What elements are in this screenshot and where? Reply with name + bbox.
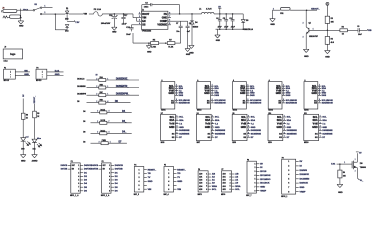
- sensor module U2 row A: [161, 79, 190, 111]
- connector P6: [198, 169, 218, 196]
- svg-text:GND: GND: [338, 192, 343, 194]
- svg-text:D13: D13: [65, 18, 68, 20]
- ground: [215, 29, 221, 42]
- svg-text:5: 5: [139, 185, 140, 187]
- svg-text:SCL1/MOSI: SCL1/MOSI: [179, 100, 190, 102]
- svg-text:I2C1S: I2C1S: [260, 171, 267, 173]
- svg-text:D6/SENSE: D6/SENSE: [322, 130, 333, 132]
- svg-text:GND: GND: [287, 127, 292, 129]
- svg-text:TN0606: TN0606: [360, 167, 366, 169]
- connector P7: [221, 169, 241, 196]
- svg-text:100uF16V: 100uF16V: [101, 23, 111, 25]
- svg-text:RESET_: RESET_: [177, 169, 186, 171]
- svg-text:SDA: SDA: [241, 119, 246, 122]
- zener diode D5: [241, 14, 253, 31]
- svg-text:C7: C7: [176, 23, 178, 25]
- svg-text:GND: GND: [241, 126, 247, 129]
- resistor R5: [151, 40, 159, 49]
- svg-text:5: 5: [168, 185, 169, 187]
- sensor module U9 row B: [232, 113, 261, 144]
- svg-text:D6/S: D6/S: [286, 95, 291, 97]
- svg-text:GND: GND: [19, 26, 24, 28]
- ground: [325, 51, 331, 59]
- svg-text:C17: C17: [124, 15, 127, 17]
- fuse F1: [94, 8, 103, 16]
- connector J6 barrel jack: [2, 7, 21, 12]
- svg-text:MX05: MX05: [304, 110, 308, 112]
- svg-text:GND: GND: [322, 93, 327, 95]
- svg-text:D6/S: D6/S: [214, 95, 219, 97]
- capacitor C7: [176, 23, 183, 33]
- svg-text:KEOUT_: KEOUT_: [34, 95, 36, 103]
- svg-text:S1/SENSE: S1/SENSE: [215, 133, 226, 135]
- svg-text:I2S/SCK: I2S/SCK: [300, 183, 309, 185]
- svg-text:6: 6: [168, 189, 169, 191]
- svg-text:D6/TXB: D6/TXB: [61, 169, 68, 171]
- svg-text:D1/SCLS: D1/SCLS: [77, 78, 85, 80]
- svg-text:GND: GND: [24, 74, 29, 76]
- svg-text:D6/SCB: D6/SCB: [61, 165, 68, 167]
- svg-text:GND: GND: [205, 126, 211, 129]
- ground: [189, 45, 195, 54]
- resistor R7 LED: [21, 99, 28, 138]
- svg-text:GND: GND: [189, 52, 194, 54]
- svg-text:S1/SENSE: S1/SENSE: [322, 133, 333, 135]
- ferrite bead FB1: [273, 8, 307, 16]
- wire comp to network: [171, 21, 181, 43]
- svg-text:value: value: [3, 60, 7, 62]
- svg-text:SCL: SCL: [277, 116, 282, 119]
- svg-text:MX01: MX01: [161, 110, 165, 112]
- svg-text:GND: GND: [177, 181, 182, 183]
- svg-text:I2S/WS: I2S/WS: [300, 170, 308, 172]
- svg-text:D6/SCB: D6/SCB: [91, 165, 98, 167]
- transistor Q2 MOSFET: [352, 153, 366, 178]
- svg-text:GND: GND: [300, 187, 305, 189]
- svg-text:R2: R2: [342, 27, 344, 29]
- svg-text:GND: GND: [311, 92, 317, 95]
- svg-text:VIN: VIN: [177, 189, 181, 191]
- svg-text:VIN: VIN: [142, 17, 146, 20]
- svg-text:R3: R3: [331, 18, 333, 20]
- wire 5V output rail: [214, 13, 243, 15]
- net flag 7.5V: [67, 20, 80, 24]
- svg-text:VIN: VIN: [84, 14, 88, 16]
- net label KEOUT_: [306, 9, 321, 11]
- sensor module U7 row B: [161, 113, 190, 144]
- svg-text:MX10: MX10: [304, 142, 308, 144]
- svg-text:GND: GND: [312, 126, 318, 129]
- resistor R6B row: [77, 85, 139, 90]
- svg-text:5: 5: [288, 178, 289, 180]
- svg-text:D1/SENPW: D1/SENPW: [77, 94, 86, 96]
- wire fuse to regulator input: [102, 13, 138, 17]
- svg-text:3: 3: [288, 170, 289, 172]
- svg-text:GND: GND: [147, 51, 152, 53]
- svg-text:D6/TXB: D6/TXB: [84, 169, 92, 171]
- resistor DOCC row: [83, 130, 132, 135]
- svg-text:S1/SENSE: S1/SENSE: [287, 133, 298, 135]
- svg-text:I2C1MOSI: I2C1MOSI: [260, 175, 271, 177]
- svg-text:D6/SENSE: D6/SENSE: [287, 130, 298, 132]
- LED D11 blue: [32, 138, 42, 155]
- svg-text:1: 1: [288, 161, 289, 163]
- svg-text:MIC6: MIC6: [221, 194, 225, 196]
- wire switch to TVS rail: [42, 13, 66, 15]
- svg-text:I2S1MCK: I2S1MCK: [300, 174, 310, 176]
- svg-text:GND: GND: [169, 126, 175, 129]
- svg-text:D10: D10: [21, 148, 24, 150]
- capacitor C5: [223, 14, 228, 29]
- svg-text:5/B: 5/B: [368, 30, 372, 32]
- svg-text:D6/SENSE: D6/SENSE: [215, 130, 226, 132]
- svg-text:8: 8: [288, 191, 289, 193]
- svg-text:MX02: MX02: [197, 110, 201, 112]
- svg-text:10n: 10n: [176, 31, 179, 33]
- svg-text:MIC8_1: MIC8_1: [281, 196, 287, 198]
- svg-text:GND: GND: [240, 92, 246, 95]
- svg-text:SS: SS: [142, 24, 146, 27]
- svg-text:MIC5: MIC5: [198, 194, 202, 196]
- wire: [159, 42, 168, 44]
- svg-text:71.5K: 71.5K: [168, 46, 174, 48]
- svg-text:1: 1: [139, 169, 140, 171]
- svg-text:MX8: MX8: [232, 142, 236, 144]
- sensor module U6 row A: [304, 79, 333, 111]
- connector P2: [91, 161, 123, 197]
- svg-text:D8: D8: [77, 101, 79, 103]
- svg-text:blue: blue: [37, 138, 41, 140]
- resistor R4: [325, 30, 334, 50]
- svg-text:S1/SENSE: S1/SENSE: [179, 133, 190, 135]
- svg-text:D8: D8: [83, 132, 85, 134]
- resistor PWM row: [83, 140, 127, 145]
- switch S1: [33, 4, 52, 15]
- svg-text:logo: logo: [10, 53, 16, 56]
- svg-text:D6/TXB: D6/TXB: [92, 169, 99, 171]
- ground: [185, 49, 191, 56]
- wire jack to ground: [20, 13, 22, 21]
- svg-text:SD1/SMOSI: SD1/SMOSI: [214, 103, 226, 105]
- svg-text:SCL: SCL: [313, 116, 318, 119]
- svg-text:GND: GND: [21, 161, 26, 163]
- capacitor C16: [101, 14, 119, 27]
- svg-text:SD1/SMOSI: SD1/SMOSI: [179, 103, 191, 105]
- svg-text:MX9: MX9: [268, 142, 272, 144]
- svg-text:VIN: VIN: [148, 189, 152, 191]
- resistor R6A row: [77, 75, 139, 82]
- svg-text:PH: PH: [164, 13, 168, 16]
- EN tie to VIN: [137, 18, 139, 22]
- capacitor C17: [121, 14, 127, 26]
- wire PH switch node: [171, 13, 202, 15]
- svg-text:V+M: V+M: [205, 122, 210, 125]
- ground: [32, 155, 38, 163]
- connector P8: [246, 159, 271, 197]
- connector P9: [281, 157, 309, 198]
- svg-text:3: 3: [168, 177, 169, 179]
- jack sleeve pin + strain relief: [3, 15, 21, 18]
- svg-text:SCL1/MOSI: SCL1/MOSI: [286, 100, 297, 102]
- svg-text:D6/SENPW_: D6/SENPW_: [116, 94, 130, 96]
- svg-text:GND: GND: [270, 24, 275, 26]
- ground: [112, 27, 117, 33]
- svg-text:SCL: SCL: [205, 116, 210, 119]
- svg-text:1: 1: [168, 169, 169, 171]
- svg-text:GND: GND: [215, 127, 220, 129]
- capacitor C3 bootstrap: [142, 2, 180, 14]
- connector MJ1 audio jack: [4, 68, 30, 83]
- svg-text:Q1: Q1: [309, 23, 311, 25]
- svg-text:D6/SCB: D6/SCB: [115, 165, 123, 167]
- svg-text:KEOUT_: KEOUT_: [311, 9, 320, 11]
- sensor module U4 row A: [233, 79, 262, 111]
- svg-text:GND: GND: [286, 93, 291, 95]
- wire branch to lower TVS: [55, 14, 67, 30]
- net label KEOUT LED column: [34, 95, 36, 103]
- svg-text:SCL1/MOSI: SCL1/MOSI: [214, 100, 225, 102]
- svg-text:C16: C16: [109, 15, 112, 17]
- svg-text:D6: D6: [83, 121, 85, 123]
- ground: [18, 21, 24, 28]
- resistor R3: [325, 16, 334, 30]
- net flag 5V: [218, 6, 221, 13]
- LED D10 red: [21, 136, 31, 154]
- svg-text:D5: D5: [246, 20, 248, 22]
- test point ground: [270, 8, 276, 26]
- diode D4 catch: [190, 14, 198, 46]
- TVS diode D14: [65, 25, 69, 33]
- logo box: [3, 46, 22, 62]
- svg-text:MX03: MX03: [233, 110, 237, 112]
- svg-text:SD1/SMOSI: SD1/SMOSI: [250, 103, 262, 105]
- svg-text:BOOT: BOOT: [142, 13, 149, 16]
- svg-text:VSENSE: VSENSE: [157, 24, 167, 27]
- svg-text:SCL: SCL: [170, 116, 175, 119]
- sensor module U8 row B: [196, 113, 225, 144]
- svg-text:GND: GND: [168, 92, 174, 95]
- svg-text:V+M: V+M: [313, 122, 318, 125]
- svg-text:C3: C3: [145, 2, 147, 4]
- svg-text:6: 6: [139, 189, 140, 191]
- net flag output: [368, 29, 372, 32]
- svg-text:C8: C8: [189, 23, 191, 25]
- svg-text:GND: GND: [216, 40, 221, 42]
- svg-text:MIC_3: MIC_3: [134, 194, 139, 196]
- resistor R10 gate pulldown: [338, 164, 347, 184]
- wire ground return rail: [216, 28, 244, 30]
- ground: [303, 49, 309, 58]
- svg-text:GND: GND: [112, 32, 117, 34]
- sensor module U11 row B: [304, 113, 333, 144]
- transistor Q1 PNP: [303, 10, 319, 49]
- inductor L1: [199, 8, 214, 14]
- svg-text:SCL1/MOSI: SCL1/MOSI: [250, 100, 261, 102]
- svg-text:D6/SENSE: D6/SENSE: [179, 130, 190, 132]
- svg-text:SD1/SMOSI: SD1/SMOSI: [322, 103, 334, 105]
- svg-text:D6/SCB: D6/SCB: [84, 165, 92, 167]
- svg-text:GND: GND: [276, 126, 282, 129]
- capacitor C9: [357, 26, 367, 36]
- svg-text:MB18-PNP: MB18-PNP: [309, 36, 318, 38]
- ground: [337, 184, 343, 194]
- svg-text:EN: EN: [142, 20, 146, 23]
- svg-text:FB1: FB1: [280, 13, 283, 15]
- svg-text:VREF: VREF: [260, 190, 266, 192]
- svg-text:GND: GND: [260, 186, 265, 188]
- svg-text:GND: GND: [251, 127, 256, 129]
- svg-text:SCL1/MOSI: SCL1/MOSI: [322, 100, 333, 102]
- svg-text:GND: GND: [322, 127, 327, 129]
- svg-text:COMP: COMP: [160, 20, 168, 23]
- resistor DOCA row: [83, 108, 132, 114]
- resistor R8 LED: [33, 104, 40, 139]
- svg-text:D6/TXB: D6/TXB: [115, 169, 123, 171]
- feedback node wire: [133, 33, 151, 44]
- svg-text:GND: GND: [325, 56, 330, 58]
- sensor module U10 row B: [268, 113, 297, 144]
- svg-text:7: 7: [288, 187, 289, 189]
- net flag source: [357, 178, 364, 182]
- svg-text:D1/SENSE: D1/SENSE: [77, 86, 86, 88]
- resistor R6C row: [77, 92, 139, 97]
- svg-text:GND: GND: [179, 93, 184, 95]
- svg-text:GND: GND: [304, 56, 309, 58]
- svg-text:7.5V: 7.5V: [75, 22, 80, 24]
- resistor R2: [327, 27, 358, 36]
- svg-text:GND: GND: [55, 74, 60, 76]
- TVS diode D13: [65, 8, 69, 21]
- svg-text:SDA: SDA: [169, 119, 174, 122]
- svg-text:S1/SENSE: S1/SENSE: [251, 133, 262, 135]
- svg-text:B5819: B5819: [193, 27, 198, 29]
- wire VIN rail: [69, 14, 94, 16]
- svg-text:GND: GND: [276, 92, 282, 95]
- svg-text:3: 3: [139, 177, 140, 179]
- wire jack to switch: [21, 9, 33, 11]
- svg-text:D6/SENSE_: D6/SENSE_: [116, 78, 129, 80]
- svg-text:SDA: SDA: [277, 119, 282, 122]
- svg-text:I2C1MISO: I2C1MISO: [260, 179, 271, 181]
- svg-text:I2C1SCK: I2C1SCK: [260, 183, 270, 185]
- svg-text:VREF: VREF: [300, 191, 306, 193]
- power flag 5V drain: [356, 152, 362, 155]
- svg-text:D6/SENTR_: D6/SENTR_: [116, 86, 129, 88]
- wire Q1 base node: [309, 28, 328, 31]
- svg-text:MJ-3.5: MJ-3.5: [4, 80, 9, 82]
- svg-text:2: 2: [168, 173, 169, 175]
- svg-text:V+M: V+M: [241, 122, 246, 125]
- net label gate: [331, 162, 352, 166]
- svg-text:GND: GND: [162, 17, 168, 20]
- capacitor C6: [229, 14, 234, 29]
- svg-text:2: 2: [288, 166, 289, 168]
- sensor module U5 row A: [268, 79, 297, 111]
- svg-text:6: 6: [288, 183, 289, 185]
- ground: [20, 155, 26, 163]
- svg-text:SDA: SDA: [313, 119, 318, 122]
- svg-text:SDA: SDA: [205, 119, 210, 122]
- svg-text:2: 2: [139, 173, 140, 175]
- svg-text:SD1/SMOSI: SD1/SMOSI: [286, 103, 298, 105]
- svg-text:D2: D2: [83, 142, 85, 144]
- power flag 5V: [326, 2, 329, 16]
- connector P5: [164, 165, 187, 196]
- svg-text:I2C1MEM: I2C1MEM: [300, 178, 310, 180]
- svg-text:MJ-3.5: MJ-3.5: [36, 80, 41, 82]
- svg-text:SCL: SCL: [212, 189, 217, 191]
- svg-text:MX7: MX7: [197, 142, 201, 144]
- svg-text:D6/S: D6/S: [322, 95, 327, 97]
- connector P4: [134, 164, 157, 196]
- svg-text:GND: GND: [179, 127, 184, 129]
- sensor module U3 row A: [197, 79, 226, 111]
- svg-text:D11: D11: [33, 148, 36, 150]
- regulator U1 TPS54233: [138, 10, 171, 33]
- resistor R7: [167, 40, 175, 49]
- resistor DOCB row: [83, 120, 132, 125]
- svg-text:GND: GND: [148, 181, 153, 183]
- svg-text:MX6: MX6: [161, 142, 165, 144]
- svg-text:RESET_: RESET_: [148, 169, 157, 171]
- svg-text:SCL: SCL: [241, 116, 246, 119]
- connector P1: [61, 161, 93, 197]
- svg-text:C10: C10: [126, 27, 129, 29]
- ground: [146, 43, 152, 53]
- connector MJ2 audio jack: [36, 68, 64, 83]
- svg-text:V+M: V+M: [169, 122, 174, 125]
- svg-text:GND: GND: [214, 93, 219, 95]
- capacitor C8 branch: [181, 21, 192, 48]
- net label 5V LED column: [23, 94, 25, 97]
- capacitor C4: [216, 14, 222, 29]
- svg-text:V+M: V+M: [277, 122, 282, 125]
- svg-text:GND: GND: [186, 54, 191, 56]
- svg-text:GND: GND: [250, 93, 255, 95]
- svg-text:MIC_7: MIC_7: [246, 195, 251, 197]
- svg-text:1: 1: [44, 6, 45, 8]
- svg-text:GND: GND: [204, 92, 210, 95]
- svg-text:D6/S: D6/S: [179, 95, 184, 97]
- resistor R6D row: [77, 100, 130, 105]
- svg-text:SCL: SCL: [235, 189, 240, 191]
- svg-text:D6/SENSE: D6/SENSE: [251, 130, 262, 132]
- test point TP12 label: [23, 10, 29, 12]
- capacitor C10 soft-start: [126, 25, 138, 36]
- svg-text:D6/S: D6/S: [250, 95, 255, 97]
- svg-text:VIN: VIN: [24, 70, 28, 72]
